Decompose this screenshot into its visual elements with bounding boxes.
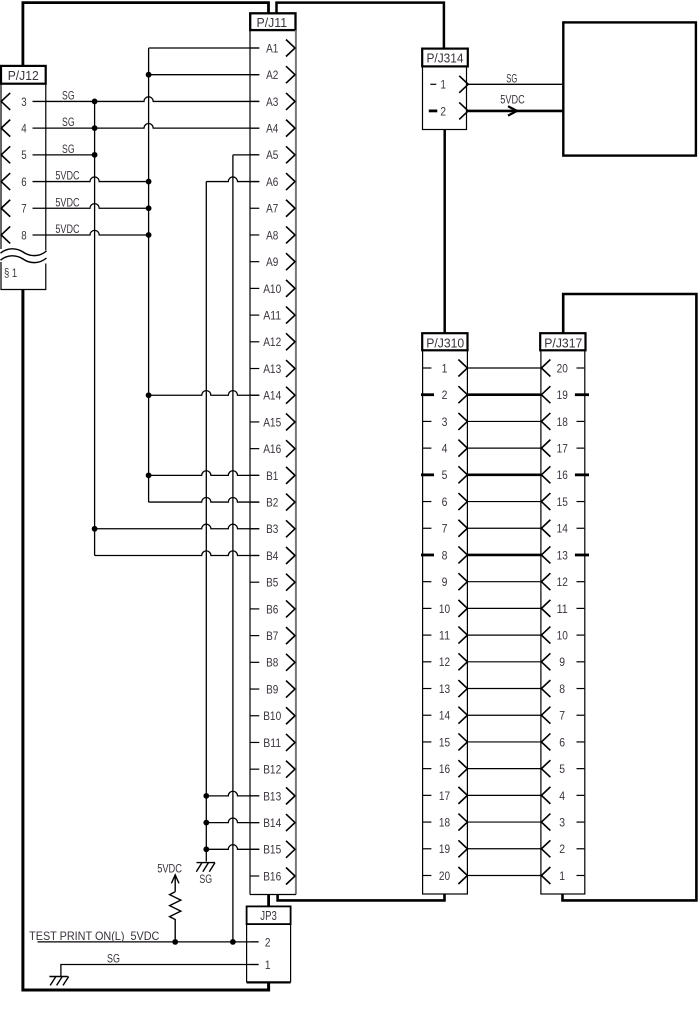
connector P/J317 pin 10 (541, 627, 584, 644)
connector P/J310 pin 15 (423, 733, 467, 750)
wire frame left-bottom (P/J12 bottom to JP3 bottom) (23, 290, 269, 991)
svg-text:5VDC: 5VDC (500, 94, 524, 107)
wire P/J12 pin4 SG to P/J11 A4 (33, 124, 260, 129)
connector P/J310 pin 12 (423, 653, 467, 670)
svg-text:16: 16 (557, 468, 568, 482)
svg-text:19: 19 (557, 388, 568, 402)
wire P/J310 pin 7 to P/J317 pin 14 (467, 527, 541, 529)
wire 5VDC bus to A14 (149, 391, 260, 396)
svg-text:B1: B1 (266, 469, 278, 483)
svg-text:B15: B15 (263, 843, 281, 857)
svg-text:6: 6 (21, 175, 26, 189)
connector P/J310 header (422, 333, 467, 350)
svg-text:5VDC: 5VDC (55, 170, 79, 183)
break wave on P/J12 body (1, 249, 47, 256)
junction dot pin6/5VDC bus (146, 179, 152, 185)
connector P/J11 pin B7 (250, 627, 295, 644)
connector P/J11 pin B10 (250, 707, 295, 724)
wire 5VDC bus to A2 (149, 74, 260, 76)
svg-text:8: 8 (21, 228, 26, 242)
connector P/J317 pin 9 (541, 653, 584, 670)
connector P/J11 pin A6 (250, 173, 295, 190)
junction dot pin4/SG bus (92, 125, 98, 131)
connector P/J314 body (423, 66, 467, 129)
connector P/J11 pin A4 (250, 120, 295, 137)
svg-text:SG: SG (62, 89, 75, 102)
svg-text:3: 3 (21, 95, 26, 109)
connector P/J317 pin 17 (541, 440, 584, 457)
connector P/J11 pin A5 (250, 146, 295, 163)
connector P/J11 pin B14 (250, 814, 295, 831)
connector P/J11 pin A7 (250, 200, 295, 217)
svg-text:B14: B14 (263, 816, 281, 830)
connector P/J310 pin 18 (423, 814, 467, 831)
svg-text:SG: SG (199, 873, 212, 886)
connector P/J310 pin 14 (423, 707, 467, 724)
wire P/J310 pin 17 to P/J317 pin 4 (467, 794, 541, 796)
connector JP3 pin 2 (251, 935, 271, 949)
connector P/J317 pin 20 (541, 360, 584, 377)
wire SG bus to B4 (95, 551, 260, 556)
connector P/J310 pin 5 (421, 466, 467, 483)
svg-text:11: 11 (557, 602, 568, 616)
connector P/J317 pin 6 (541, 733, 584, 750)
svg-text:B16: B16 (263, 869, 281, 883)
svg-text:14: 14 (557, 522, 568, 536)
connector JP3 body (247, 924, 291, 982)
wire 5VDC bus vertical (A1 to B2) (148, 48, 150, 502)
svg-text:4: 4 (442, 442, 448, 456)
svg-text:A8: A8 (266, 228, 278, 242)
wire P/J310 pin 18 to P/J317 pin 3 (467, 821, 541, 823)
wire P/J310 pin 8 to P/J317 pin 13 (467, 554, 541, 557)
svg-text:A15: A15 (263, 415, 281, 429)
wire A6 bus to B14 (206, 818, 259, 823)
wire P/J310 pin 15 to P/J317 pin 6 (467, 741, 541, 743)
connector P/J317 body (541, 350, 585, 894)
wire P/J310 pin 4 to P/J317 pin 17 (467, 447, 541, 449)
connector P/J11 pin A10 (250, 280, 295, 297)
svg-text:15: 15 (557, 495, 568, 509)
svg-text:B9: B9 (266, 682, 278, 696)
wire A6 to bus (206, 177, 259, 182)
wire P/J310 pin 6 to P/J317 pin 15 (467, 501, 541, 503)
connector P/J310 pin 4 (423, 440, 467, 457)
svg-text:3: 3 (559, 815, 565, 829)
connector P/J317 pin 5 (541, 760, 584, 777)
svg-text:A11: A11 (263, 309, 281, 323)
connector P/J310 pin 13 (423, 680, 467, 697)
wire P/J12 pin7 5VDC to 5VDC bus (33, 204, 149, 209)
wire P/J310 pin 12 to P/J317 pin 9 (467, 661, 541, 663)
wire A5 bus vertical (A5 to JP3 pin2) (232, 155, 234, 942)
connector P/J12 body (1, 84, 46, 290)
connector P/J11 pin A14 (250, 387, 295, 404)
wire P/J310 pin 11 to P/J317 pin 10 (467, 634, 541, 636)
connector P/J11 pin B5 (250, 574, 295, 591)
wire P/J310 pin 1 to P/J317 pin 20 (467, 367, 541, 369)
connector P/J317 pin 13 (541, 546, 589, 563)
connector P/J310 pin 17 (423, 787, 467, 804)
connector P/J314 pin 1 (430, 76, 468, 93)
svg-text:P/J317: P/J317 (544, 335, 582, 350)
wire 5VDC bus to B2 (149, 497, 260, 502)
svg-text:B2: B2 (266, 495, 278, 509)
flow arrow on 5VDC wire (508, 106, 517, 115)
svg-text:SG: SG (62, 143, 75, 156)
wire A6 bus vertical (A6 to SG ground) (205, 182, 207, 862)
connector P/J11 pin A16 (250, 440, 295, 457)
connector P/J11 pin A11 (250, 307, 295, 324)
connector P/J11 pin B15 (250, 841, 295, 858)
svg-text:A1: A1 (266, 41, 278, 55)
svg-text:B11: B11 (263, 736, 281, 750)
wire P/J310 pin 16 to P/J317 pin 5 (467, 768, 541, 770)
svg-text:5VDC: 5VDC (55, 196, 79, 209)
wire SG bus to B3 (95, 524, 260, 529)
svg-text:TEST PRINT ON(L) 5VDC: TEST PRINT ON(L) 5VDC (29, 930, 159, 943)
svg-text:P/J11: P/J11 (257, 15, 288, 30)
svg-text:16: 16 (439, 762, 450, 776)
connector P/J11 pin B4 (250, 547, 295, 564)
junction dot A2/5VDC bus (146, 72, 152, 78)
svg-text:18: 18 (439, 815, 450, 829)
svg-text:A14: A14 (263, 389, 281, 403)
svg-text:SG: SG (62, 116, 75, 129)
connector P/J11 pin B13 (250, 787, 295, 804)
connector P/J11 pin A12 (250, 333, 295, 350)
connector P/J11 pin A2 (250, 66, 295, 83)
svg-text:A5: A5 (266, 148, 278, 162)
connector P/J12 pin 7 (1, 200, 27, 217)
svg-text:11: 11 (439, 629, 450, 643)
svg-text:A2: A2 (266, 68, 278, 82)
svg-text:SG: SG (107, 952, 120, 965)
svg-text:5VDC: 5VDC (157, 863, 182, 876)
wire A5 to bus (233, 154, 259, 156)
svg-text:A3: A3 (266, 95, 278, 109)
wire P/J12 pin3 SG to P/J11 A3 (33, 97, 260, 102)
junction dot pin3/SG bus (92, 99, 98, 105)
connector P/J317 pin 1 (541, 867, 584, 884)
svg-text:5: 5 (559, 762, 565, 776)
svg-text:13: 13 (439, 682, 450, 696)
connector P/J317 header (540, 333, 585, 350)
svg-text:B10: B10 (263, 709, 281, 723)
svg-text:A6: A6 (266, 175, 278, 189)
connector P/J317 pin 2 (541, 840, 584, 857)
wire P/J11 bottom to JP3 header (267, 895, 270, 907)
svg-text:6: 6 (442, 495, 448, 509)
wire A6 bus to B15 (206, 845, 259, 850)
resistor R1 (170, 892, 181, 942)
wire 5VDC bus to B1 (149, 471, 260, 476)
svg-text:14: 14 (439, 709, 450, 723)
svg-text:SG: SG (506, 73, 517, 86)
connector P/J317 pin 3 (541, 814, 584, 831)
svg-text:2: 2 (442, 388, 448, 402)
svg-text:20: 20 (557, 361, 568, 375)
svg-text:18: 18 (557, 415, 568, 429)
svg-text:B12: B12 (263, 763, 281, 777)
connector P/J310 pin 2 (421, 386, 467, 403)
junction dot pin7/5VDC bus (146, 205, 152, 211)
ground SG (bottom left) (49, 977, 68, 986)
connector P/J310 pin 3 (423, 413, 467, 430)
connector P/J12 pin 3 (1, 93, 27, 110)
connector P/J310 pin 11 (423, 627, 467, 644)
ground SG (A6 bus) (196, 863, 215, 887)
svg-text:4: 4 (559, 789, 565, 803)
svg-text:5: 5 (442, 468, 448, 482)
wire P/J317 loop to right unit (563, 294, 697, 900)
svg-text:5: 5 (21, 148, 26, 162)
wire SG to JP3 pin1 (61, 965, 259, 977)
wire P/J310 pin 20 to P/J317 pin 1 (467, 874, 541, 876)
svg-text:2: 2 (265, 935, 271, 949)
connector P/J310 pin 6 (423, 493, 467, 510)
connector JP3 pin 1 (251, 958, 271, 972)
wire P/J310 pin 13 to P/J317 pin 8 (467, 688, 541, 690)
svg-text:B5: B5 (266, 576, 278, 590)
svg-text:12: 12 (439, 655, 450, 669)
connector P/J317 pin 14 (541, 520, 584, 537)
wire SG P/J314 pin1 to unit (468, 83, 563, 85)
svg-text:5VDC: 5VDC (55, 223, 79, 236)
svg-text:10: 10 (439, 602, 450, 616)
connector P/J11 pin A8 (250, 226, 295, 243)
wire P/J310 pin 14 to P/J317 pin 7 (467, 714, 541, 716)
wire P/J310 pin 9 to P/J317 pin 12 (467, 581, 541, 583)
junction dot A14/5VDC bus (146, 392, 152, 398)
junction dot B13/A6 bus (203, 793, 209, 799)
svg-text:B4: B4 (266, 549, 278, 563)
svg-text:8: 8 (442, 548, 448, 562)
svg-text:P/J314: P/J314 (427, 51, 464, 66)
connector P/J11 pin B8 (250, 654, 295, 671)
wire P/J314 to P/J310 header (443, 130, 446, 334)
connector P/J11 pin B12 (250, 761, 295, 778)
connector P/J317 pin 18 (541, 413, 584, 430)
junction dot B1/5VDC bus (146, 472, 152, 478)
connector P/J11 pin B1 (250, 467, 295, 484)
svg-text:12: 12 (557, 575, 568, 589)
wire frame top-left (P/J11 to P/J12 header) (23, 3, 269, 66)
connector P/J317 pin 4 (541, 787, 584, 804)
svg-text:3: 3 (442, 415, 448, 429)
svg-text:7: 7 (21, 202, 26, 216)
svg-text:B13: B13 (263, 789, 281, 803)
svg-text:9: 9 (442, 575, 448, 589)
connector P/J310 pin 7 (423, 520, 467, 537)
svg-text:B8: B8 (266, 656, 278, 670)
svg-text:A10: A10 (263, 282, 281, 296)
svg-text:B6: B6 (266, 602, 278, 616)
connector P/J11 pin A9 (250, 253, 295, 270)
connector P/J12 pin 4 (1, 120, 27, 137)
wire SG bus vertical (pin3 to B4) (94, 101, 96, 555)
connector P/J314 pin 2 (429, 102, 468, 119)
svg-text:JP3: JP3 (260, 909, 277, 923)
connector P/J317 pin 11 (541, 600, 584, 617)
svg-text:9: 9 (559, 655, 565, 669)
svg-text:6: 6 (559, 735, 565, 749)
wire P/J310 pin 5 to P/J317 pin 16 (467, 474, 541, 477)
wire P/J310 pin 19 to P/J317 pin 2 (467, 848, 541, 850)
connector P/J11 pin B2 (250, 494, 295, 511)
junction dot pin5/SG bus (92, 152, 98, 158)
unit box top-right (563, 22, 696, 155)
svg-text:P/J310: P/J310 (426, 335, 464, 350)
connector P/J12 pin 5 (1, 146, 27, 163)
connector JP3 header (247, 906, 291, 924)
svg-text:20: 20 (439, 869, 450, 883)
svg-text:19: 19 (439, 842, 450, 856)
wire P/J310 pin 10 to P/J317 pin 11 (467, 607, 541, 609)
connector P/J310 body (423, 350, 468, 894)
svg-text:15: 15 (439, 735, 450, 749)
connector P/J314 header (422, 49, 468, 67)
svg-text:P/J12: P/J12 (8, 68, 39, 83)
connector P/J11 pin A3 (250, 93, 295, 110)
connector P/J317 pin 7 (541, 707, 584, 724)
connector P/J317 pin 12 (541, 573, 584, 590)
svg-text:A16: A16 (263, 442, 281, 456)
svg-text:7: 7 (559, 709, 565, 723)
svg-text:B3: B3 (266, 522, 278, 536)
connector P/J12 pin 8 (1, 226, 27, 243)
junction dot pin8/5VDC bus (146, 232, 152, 238)
connector P/J310 pin 9 (423, 573, 467, 590)
connector P/J310 pin 8 (421, 546, 467, 563)
svg-text:A4: A4 (266, 122, 278, 136)
connector P/J11 pin A13 (250, 360, 295, 377)
junction dot B14/A6 bus (203, 820, 209, 826)
connector P/J12 pin 6 (1, 173, 27, 190)
connector P/J11 pin A15 (250, 413, 295, 430)
connector P/J310 pin 20 (423, 867, 467, 884)
svg-text:1: 1 (265, 958, 271, 972)
connector P/J11 pin A1 (250, 40, 295, 57)
svg-text:A7: A7 (266, 202, 278, 216)
wire P/J310 pin 2 to P/J317 pin 19 (467, 393, 541, 396)
connector P/J317 pin 16 (541, 466, 589, 483)
svg-text:13: 13 (557, 548, 568, 562)
svg-text:8: 8 (559, 682, 565, 696)
svg-text:§ 1: § 1 (4, 266, 17, 280)
wire A6 bus to B13 (206, 791, 259, 796)
wire TEST PRINT ON(L) 5VDC to JP3 pin2 (38, 941, 259, 943)
svg-text:1: 1 (440, 78, 446, 92)
wire 5VDC bus to A1 (149, 47, 260, 49)
junction dot resistor/JP3 wire (172, 939, 178, 945)
connector P/J310 pin 16 (423, 760, 467, 777)
junction dot B15/A6 bus (203, 846, 209, 852)
connector P/J11 header (250, 13, 295, 30)
wire top-right (P/J11 header to P/J314 header) (277, 3, 444, 49)
connector P/J310 pin 10 (423, 600, 467, 617)
svg-text:B7: B7 (266, 629, 278, 643)
connector P/J11 pin B16 (250, 868, 295, 885)
junction dot B3/SG bus (92, 526, 98, 532)
connector P/J317 pin 15 (541, 493, 584, 510)
connector P/J317 pin 19 (541, 386, 589, 403)
wire P/J12 pin6 5VDC to 5VDC bus (33, 177, 149, 182)
connector P/J11 pin B9 (250, 681, 295, 698)
connector P/J11 body (249, 30, 251, 894)
wire 5VDC P/J314 pin2 to unit (bold) (468, 110, 563, 113)
svg-text:2: 2 (559, 842, 565, 856)
wire P/J12 pin5 SG to SG bus (33, 154, 95, 156)
connector P/J11 pin B6 (250, 600, 295, 617)
connector P/J11 pin B11 (250, 734, 295, 751)
svg-text:7: 7 (442, 522, 448, 536)
wire P/J12 pin8 5VDC to 5VDC bus (33, 230, 149, 235)
connector P/J317 pin 8 (541, 680, 584, 697)
connector P/J12 header (1, 66, 46, 84)
svg-text:A13: A13 (263, 362, 281, 376)
connector P/J310 pin 1 (423, 360, 467, 377)
svg-text:A9: A9 (266, 255, 278, 269)
svg-text:1: 1 (442, 361, 448, 375)
svg-text:17: 17 (557, 442, 568, 456)
connector P/J310 pin 19 (423, 840, 467, 857)
svg-text:10: 10 (557, 629, 568, 643)
power arrow up 5VDC (171, 875, 179, 892)
svg-text:A12: A12 (263, 335, 281, 349)
wire P/J310 pin 3 to P/J317 pin 18 (467, 420, 541, 422)
svg-text:4: 4 (21, 122, 26, 136)
junction dot A5 bus/JP3 wire (230, 939, 236, 945)
connector P/J11 pin B3 (250, 520, 295, 537)
wire P/J11 bottom to P/J310 bottom (278, 894, 445, 900)
svg-text:2: 2 (440, 104, 446, 118)
svg-text:1: 1 (559, 869, 565, 883)
svg-text:17: 17 (439, 789, 450, 803)
